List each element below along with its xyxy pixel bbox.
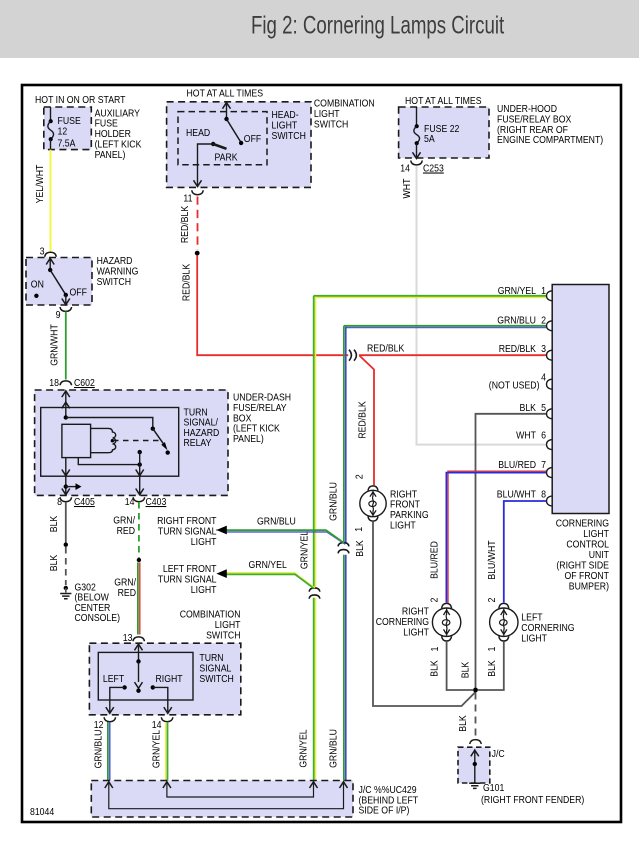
svg-text:Fig 2: Cornering Lamps Circuit: Fig 2: Cornering Lamps Circuit: [251, 12, 504, 40]
svg-text:GRN/BLU: GRN/BLU: [497, 315, 536, 327]
wire RED/BLK solid to control unit pin 3: [197, 256, 348, 356]
pin 9: [60, 307, 72, 311]
svg-text:RED/BLK: RED/BLK: [499, 343, 536, 355]
bulb left cornering light: [490, 603, 518, 641]
label turn signal switch: [199, 652, 233, 685]
svg-text:HEAD: HEAD: [186, 127, 211, 139]
svg-text:11: 11: [183, 193, 192, 205]
pin 14 connector C253: [411, 161, 423, 165]
wire GRN/BLU from pin 12: [108, 722, 110, 781]
hazard switch contacts: [34, 258, 70, 304]
svg-text:14: 14: [400, 163, 410, 175]
label left cornering light: [521, 612, 574, 645]
svg-text:G101: G101: [483, 782, 504, 794]
svg-text:C602: C602: [74, 377, 95, 389]
label under-hood fuse/relay box: [497, 103, 603, 146]
svg-text:SWITCH: SWITCH: [97, 276, 131, 288]
label J/C UC429: [359, 784, 419, 817]
svg-text:8: 8: [541, 489, 546, 501]
svg-text:LIGHT: LIGHT: [390, 520, 416, 532]
turn signal switch inner box: [98, 652, 193, 700]
svg-text:2: 2: [486, 597, 498, 602]
svg-text:RED/BLK: RED/BLK: [179, 206, 191, 243]
svg-text:BLK: BLK: [48, 516, 60, 533]
label cornering light control unit: [556, 517, 610, 592]
bulb right front parking light: [360, 486, 386, 521]
auxiliary fuse holder box: [44, 107, 92, 150]
svg-text:3: 3: [541, 343, 546, 355]
inline connector on GRN/YEL: [309, 588, 320, 599]
wire BLK from pin 8: [65, 502, 67, 545]
svg-text:BLK: BLK: [48, 555, 60, 572]
pin 2: [547, 321, 552, 331]
headlight switch contacts: [194, 103, 244, 187]
label right front turn signal light: [157, 515, 217, 548]
svg-text:GRN/YEL: GRN/YEL: [498, 285, 536, 297]
turn signal / hazard relay inner box: [41, 408, 179, 477]
svg-text:BLK: BLK: [429, 660, 441, 677]
svg-text:HOT AT ALL TIMES: HOT AT ALL TIMES: [187, 88, 264, 100]
svg-text:WHT: WHT: [401, 178, 413, 198]
inline connector on GRN/BLU: [338, 543, 349, 554]
fuse F22 symbol: [413, 107, 421, 159]
pin 5: [547, 409, 552, 419]
wire GRN/YEL from pin 14: [166, 722, 168, 781]
relay coil: [62, 424, 160, 457]
pin 6: [547, 440, 552, 450]
svg-text:6: 6: [541, 430, 546, 442]
svg-text:LIGHT: LIGHT: [191, 584, 217, 596]
wire BLU/WHT pin 8: [504, 501, 546, 603]
pin 4 not used: [547, 379, 552, 389]
svg-text:1: 1: [353, 527, 365, 532]
cornering light control unit U1: [552, 285, 609, 514]
svg-text:C253: C253: [423, 163, 444, 175]
svg-text:RIGHT: RIGHT: [156, 673, 184, 685]
wire entry from pin 18: [62, 391, 70, 420]
svg-text:81044: 81044: [30, 806, 54, 818]
wire RED/BLK branch to parking light: [360, 356, 375, 486]
label under-dash fuse/relay box: [233, 392, 291, 446]
combination light switch box (bottom): [89, 643, 240, 715]
svg-text:HOT IN ON OR START: HOT IN ON OR START: [35, 94, 126, 106]
svg-text:GRN/WHT: GRN/WHT: [49, 324, 61, 366]
svg-text:C405: C405: [74, 496, 95, 508]
pin 11: [192, 190, 204, 194]
svg-text:BLU/WHT: BLU/WHT: [497, 489, 537, 501]
label combination light switch (top): [314, 98, 375, 131]
pin 7: [547, 468, 552, 478]
svg-text:ENGINE COMPARTMENT): ENGINE COMPARTMENT): [497, 134, 603, 146]
svg-text:BLU/WHT: BLU/WHT: [486, 540, 498, 580]
svg-text:4: 4: [541, 371, 546, 383]
svg-text:OFF: OFF: [244, 133, 261, 145]
svg-text:BLK: BLK: [486, 660, 498, 677]
J/C internal links: [105, 782, 348, 809]
pin 1: [547, 291, 552, 301]
svg-text:7.5A: 7.5A: [58, 137, 76, 149]
wire GRN/RED dashed: [138, 502, 140, 558]
svg-text:GRN/BLU: GRN/BLU: [327, 482, 339, 521]
svg-text:2: 2: [354, 474, 366, 479]
svg-text:12: 12: [94, 719, 104, 731]
svg-text:3: 3: [40, 246, 45, 258]
wire BLK pin 5: [476, 414, 547, 690]
fuse 12 value label: [58, 115, 81, 149]
svg-text:1: 1: [429, 646, 441, 651]
svg-text:LIGHT: LIGHT: [403, 627, 429, 639]
svg-text:BLU/RED: BLU/RED: [429, 541, 441, 579]
label head-light switch: [272, 109, 306, 142]
wire GRN/YEL pin 1: [314, 296, 546, 781]
label turn signal/hazard relay: [184, 406, 220, 449]
wire GRN/RED solid pair: [138, 563, 140, 635]
svg-text:RED/BLK: RED/BLK: [367, 343, 404, 355]
svg-text:GRN/BLU: GRN/BLU: [257, 516, 296, 528]
svg-text:RED/BLK: RED/BLK: [357, 401, 369, 438]
node splice dot: [195, 251, 200, 256]
inline connector on RED/BLK: [349, 350, 356, 361]
svg-text:BLK: BLK: [457, 715, 469, 732]
wire RED/BLK dashed from pin 11: [197, 197, 199, 251]
svg-text:BLU/RED: BLU/RED: [498, 459, 536, 471]
svg-text:18: 18: [49, 377, 59, 389]
wire BLK dashed to G101: [475, 693, 477, 739]
svg-text:YEL/WHT: YEL/WHT: [34, 164, 46, 203]
svg-text:2: 2: [541, 315, 546, 327]
node BLK junction: [473, 688, 478, 693]
svg-text:5: 5: [541, 402, 546, 414]
ground G302: [60, 594, 71, 599]
wire GRN/BLU pin 2: [344, 326, 546, 781]
svg-text:GRN/BLU: GRN/BLU: [328, 729, 340, 768]
svg-text:ON: ON: [31, 278, 44, 290]
svg-text:PANEL): PANEL): [95, 149, 126, 161]
svg-text:RED: RED: [117, 525, 136, 537]
junction connector J/C: [470, 740, 482, 744]
svg-text:C403: C403: [146, 496, 167, 508]
wire YEL/WHT: [50, 150, 52, 252]
svg-text:PARK: PARK: [215, 152, 238, 164]
label right front parking light: [390, 488, 429, 531]
svg-text:PANEL): PANEL): [233, 433, 264, 445]
svg-text:1: 1: [486, 646, 498, 651]
svg-text:2: 2: [429, 597, 441, 602]
svg-text:SWITCH: SWITCH: [206, 630, 240, 642]
svg-text:LEFT: LEFT: [103, 673, 125, 685]
svg-text:BLK: BLK: [460, 662, 472, 679]
label auxiliary fuse holder: [95, 107, 142, 161]
right front turn signal light feed: [216, 526, 345, 545]
svg-text:HOT AT ALL TIMES: HOT AT ALL TIMES: [405, 95, 482, 107]
J/C box before G101: [458, 747, 490, 783]
svg-text:12: 12: [58, 126, 68, 138]
fuse F12 symbol: [48, 107, 54, 150]
pin 3: [547, 350, 552, 360]
svg-text:WHT: WHT: [516, 430, 536, 442]
svg-text:1: 1: [541, 285, 546, 297]
headlight switch box: [167, 102, 311, 188]
label right cornering light: [376, 606, 430, 639]
turn signal switch contacts: [106, 644, 172, 713]
label combination light switch: [180, 609, 241, 642]
under-hood fuse/relay box (fuse 22): [399, 107, 489, 158]
ground G101: [469, 783, 480, 788]
svg-text:BUMPER): BUMPER): [569, 580, 609, 592]
svg-text:(RIGHT FRONT FENDER): (RIGHT FRONT FENDER): [481, 794, 584, 806]
svg-text:GRN/BLU: GRN/BLU: [93, 730, 105, 769]
relay outputs: [62, 450, 144, 495]
wire RED/BLK continues to pin 3: [359, 354, 546, 356]
svg-text:GRN/YEL: GRN/YEL: [298, 729, 310, 767]
svg-text:BLK: BLK: [354, 540, 366, 557]
left front turn signal light feed: [216, 569, 314, 588]
svg-text:SWITCH: SWITCH: [272, 130, 306, 142]
svg-text:LIGHT: LIGHT: [191, 536, 217, 548]
svg-text:5A: 5A: [424, 133, 435, 145]
svg-text:BLK: BLK: [520, 402, 537, 414]
svg-text:J/C: J/C: [492, 748, 505, 760]
svg-text:GRN/YEL: GRN/YEL: [151, 730, 163, 768]
title bar: [0, 0, 639, 58]
svg-text:9: 9: [56, 309, 61, 321]
svg-text:RED/BLK: RED/BLK: [181, 264, 193, 301]
svg-text:SWITCH: SWITCH: [314, 118, 348, 130]
svg-text:CONSOLE): CONSOLE): [75, 612, 121, 624]
fuse 22 value label: [424, 123, 460, 145]
svg-text:SIDE OF I/P): SIDE OF I/P): [359, 805, 410, 817]
bulb right cornering light: [432, 603, 460, 641]
svg-text:13: 13: [123, 632, 133, 644]
label G302 (below center console): [75, 582, 121, 625]
svg-text:7: 7: [541, 459, 546, 471]
svg-text:(NOT USED): (NOT USED): [489, 379, 540, 391]
svg-text:GRN/YEL: GRN/YEL: [249, 559, 287, 571]
svg-text:RED: RED: [118, 587, 137, 599]
wire WHT vertical+horizontal from fuse22 to control unit pin 6: [417, 166, 547, 445]
svg-text:SWITCH: SWITCH: [199, 673, 233, 685]
svg-text:GRN/YEL: GRN/YEL: [299, 531, 311, 569]
svg-text:OFF: OFF: [70, 287, 87, 299]
svg-text:14: 14: [152, 719, 162, 731]
svg-text:RELAY: RELAY: [184, 437, 212, 449]
label left front turn signal light: [158, 563, 217, 596]
relay switch: [66, 418, 170, 455]
pin 8: [547, 496, 552, 506]
svg-text:LIGHT: LIGHT: [521, 633, 547, 645]
wire BLU/RED pin 7: [446, 471, 546, 603]
label hazard warning switch: [97, 255, 139, 288]
wire GRN/WHT: [65, 312, 67, 380]
